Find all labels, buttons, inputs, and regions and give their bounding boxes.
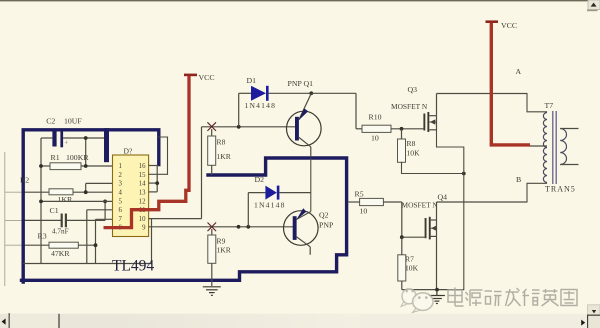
diode D2 triangle xyxy=(265,186,276,200)
wire Q4 gate lead xyxy=(402,236,425,238)
svg-text:9: 9 xyxy=(142,225,146,232)
thick navy stub from top edge to capacitor C2 left plate xyxy=(52,130,56,147)
svg-text:4.7nF: 4.7nF xyxy=(52,228,69,236)
wire D2 node riser (thick rail to Q2 emitter) xyxy=(310,158,312,212)
wire R10 right lead xyxy=(391,128,423,130)
ground symbol at Q4 source xyxy=(429,290,445,304)
diode D1 cathode bar xyxy=(266,86,269,101)
wire left vertical bus at image edge (faint) xyxy=(4,152,6,286)
svg-text:1KR: 1KR xyxy=(58,195,74,204)
svg-text:1KR: 1KR xyxy=(217,246,232,255)
transistor Q1 emitter arrow (PNP) xyxy=(299,108,309,120)
wire R3 left stub faint part xyxy=(5,244,23,246)
wire D1 cathode lead xyxy=(269,92,312,94)
mosfet Q4 channel bar xyxy=(429,217,431,240)
transistor Q1 emitter line xyxy=(299,93,311,120)
wire Q4 drain riser to node B xyxy=(436,202,438,220)
wire R3 right lead xyxy=(78,244,95,246)
window top border xyxy=(0,0,600,1)
transistor Q1 collector line xyxy=(299,137,311,146)
mosfet Q4 drain stub xyxy=(431,219,437,221)
wire node A horizontal xyxy=(437,93,528,95)
wire R8 bottom stub xyxy=(211,165,213,175)
svg-text:Q4: Q4 xyxy=(438,193,448,202)
ground symbol below R9 xyxy=(203,287,221,296)
resistor R5 xyxy=(360,198,384,205)
svg-text:PNP: PNP xyxy=(319,221,334,230)
wire R2 left stub xyxy=(23,191,49,193)
junction dot Q3 source node xyxy=(462,172,466,176)
resistor R9 xyxy=(208,235,216,263)
resistor R7 xyxy=(398,255,406,281)
wire pin14-pin13 riser xyxy=(156,166,158,192)
IC U1 TL494 body xyxy=(113,155,149,237)
wire secondary top lead xyxy=(560,128,578,130)
wire Q1 collector riser to thick rail xyxy=(310,147,312,157)
junction dot pin5 riser xyxy=(103,200,107,204)
wire D2 cathode lead xyxy=(279,192,310,194)
transistor Q1 base bar xyxy=(295,117,299,141)
svg-text:10UF: 10UF xyxy=(64,117,82,126)
transistor Q2 emitter arrow (PNP) xyxy=(296,208,306,220)
junction dot pin 14 xyxy=(155,181,159,185)
wire R5 left lead from thick rail xyxy=(348,201,360,203)
svg-text:D?: D? xyxy=(124,147,133,156)
svg-text:10: 10 xyxy=(139,216,146,223)
wire bottom long ground lead xyxy=(23,263,151,265)
wire D2 anode lead xyxy=(248,192,265,194)
svg-text:47KR: 47KR xyxy=(51,249,70,258)
capacitor C1 right plate xyxy=(65,214,67,228)
svg-text:R8: R8 xyxy=(407,139,416,148)
watermark text 电源研发精英圈 xyxy=(448,288,464,307)
wire node B horizontal xyxy=(437,201,528,203)
wire center tap lead xyxy=(530,145,548,147)
junction dot D2 branch xyxy=(246,225,250,229)
svg-text:12: 12 xyxy=(139,198,146,205)
wire D1 riser xyxy=(238,93,240,127)
mosfet Q3 drain-source line xyxy=(436,116,438,130)
svg-text:1N4148: 1N4148 xyxy=(254,201,286,210)
svg-text:Q3: Q3 xyxy=(408,85,418,94)
wire C1 left stub faint part xyxy=(5,219,23,221)
mosfet Q3 source stub xyxy=(429,129,436,131)
wire C2 left lead xyxy=(41,137,52,139)
svg-text:R5: R5 xyxy=(355,190,364,199)
junction dot pin4/R2 xyxy=(84,190,88,194)
junction dot C2/riser xyxy=(84,136,88,140)
wire R8 top stub xyxy=(211,129,213,136)
wire R10 riser xyxy=(355,93,357,129)
wire pin 13 stub xyxy=(149,191,158,193)
wire riser C2 node to pin1 node xyxy=(85,138,87,166)
junction dot R3/pin7 riser xyxy=(94,243,98,247)
wire R7 top stub xyxy=(401,237,403,255)
power VCC port left (tick bar) xyxy=(184,74,197,77)
wire Q4 gate riser xyxy=(401,202,403,237)
resistor R1 xyxy=(50,163,81,170)
svg-text:10K: 10K xyxy=(407,149,421,158)
junction dot Q1 emitter node xyxy=(309,91,313,95)
wire R8b top stub xyxy=(401,129,403,139)
svg-text:D2: D2 xyxy=(255,175,265,184)
wire Q2 base row from pin 9 xyxy=(149,226,293,228)
wire Q4 source riser xyxy=(436,236,438,289)
mosfet Q3 drain stub xyxy=(429,115,436,117)
wire D1 anode lead xyxy=(239,92,251,94)
wire R1 left lead xyxy=(41,165,50,167)
svg-text:TL494: TL494 xyxy=(112,258,154,275)
transformer T7 primary winding xyxy=(543,113,547,183)
transformer T7 secondary winding xyxy=(560,129,566,165)
no-ERC mark at R8 top xyxy=(207,122,216,131)
svg-text:10: 10 xyxy=(371,134,379,143)
svg-text:4: 4 xyxy=(119,190,123,197)
watermark logo bubble large xyxy=(413,293,433,313)
svg-text:C1: C1 xyxy=(50,206,59,215)
junction dot R1 right riser xyxy=(84,164,88,168)
svg-text:R7: R7 xyxy=(405,255,414,264)
svg-text:A: A xyxy=(516,67,522,76)
wire R2 right lead to pin 4 xyxy=(73,191,113,193)
thick navy bar from top edge down to R1/pin1 node xyxy=(104,128,109,162)
svg-text:10: 10 xyxy=(360,207,368,216)
svg-text:T7: T7 xyxy=(545,101,554,110)
transistor Q2 circle xyxy=(284,211,319,246)
wire riser pin3 to pin4 node xyxy=(85,183,87,192)
junction dot R1 left xyxy=(39,164,43,168)
red VCC trace to transformer center tap xyxy=(491,23,530,145)
power VCC port right (tick bar) xyxy=(486,20,499,23)
junction dot Q4 gate/R7 xyxy=(400,235,404,239)
svg-text:C2: C2 xyxy=(46,117,55,126)
wire R7 bottom stub xyxy=(401,281,403,290)
wire C1 right lead xyxy=(67,219,105,221)
wire R2 left stub faint part xyxy=(5,191,23,193)
svg-text:Q2: Q2 xyxy=(319,211,329,220)
wire Q3 source jog down xyxy=(437,130,464,290)
mosfet Q4 source stub xyxy=(431,235,437,237)
junction dot base row extra xyxy=(237,225,241,229)
junction dot Q3 gate node xyxy=(400,127,404,131)
horizontal scrollbar band bottom left xyxy=(0,314,600,328)
transistor Q2 base bar xyxy=(293,216,297,240)
mosfet Q4 gate bar xyxy=(425,218,427,238)
wire Q3 drain riser to node A xyxy=(436,94,438,116)
junction dot source rail xyxy=(435,288,439,292)
transistor Q2 collector line xyxy=(297,237,311,247)
wire C1 left stub xyxy=(23,219,61,221)
no-ERC mark at R9 top xyxy=(208,223,217,232)
resistor R2 xyxy=(49,189,73,195)
wire pin 7 riser xyxy=(95,219,97,263)
svg-text:R10: R10 xyxy=(369,113,382,122)
svg-text:R1: R1 xyxy=(51,153,60,162)
wire R3 left stub xyxy=(23,244,49,246)
watermark logo bubble small xyxy=(401,289,416,307)
transistor Q1 circle xyxy=(287,111,322,146)
svg-text:+: + xyxy=(64,139,68,147)
wire R9 bottom lead xyxy=(211,263,213,286)
wire Q1 emitter to R10 lead xyxy=(311,92,356,94)
svg-text:1N4148: 1N4148 xyxy=(245,101,277,110)
svg-text:13: 13 xyxy=(139,190,146,197)
wire pin 15 stub xyxy=(149,173,168,175)
svg-text:R2: R2 xyxy=(20,176,29,185)
svg-text:R8: R8 xyxy=(217,138,226,147)
svg-text:TRAN5: TRAN5 xyxy=(545,185,576,194)
capacitor C2 right plate xyxy=(60,132,63,148)
svg-text:VCC: VCC xyxy=(501,21,517,30)
junction dot D1 branch xyxy=(237,125,241,129)
svg-text:10K: 10K xyxy=(405,264,419,273)
wire R1 right lead to pin 1 xyxy=(81,165,113,167)
thick navy bus: left edge / top edge / right drop of TL494 block xyxy=(23,130,159,282)
svg-text:7: 7 xyxy=(119,216,123,223)
wire pin 15 riser loop xyxy=(159,137,168,174)
diode D1 triangle xyxy=(251,86,266,101)
wire pin 10 riser up to Q1 base row xyxy=(201,127,203,219)
wire R8b bottom lead xyxy=(402,162,464,173)
svg-text:5: 5 xyxy=(119,198,123,205)
wire R10 left lead xyxy=(356,128,362,130)
svg-text:VCC: VCC xyxy=(199,73,215,82)
capacitor C1 left plate xyxy=(61,214,63,228)
svg-text:2: 2 xyxy=(119,172,123,179)
svg-text:16: 16 xyxy=(139,163,146,170)
svg-text:6: 6 xyxy=(119,207,123,214)
scrollbar left-arrow button xyxy=(8,313,10,328)
wire D2 riser xyxy=(247,193,249,227)
mosfet Q3 gate bar xyxy=(423,114,425,131)
svg-text:R3: R3 xyxy=(38,232,47,241)
wire pin 14 stub xyxy=(149,182,158,184)
wire pin 10 lower riser xyxy=(151,219,153,264)
scrollbar thumb edge xyxy=(10,315,59,328)
wire R5 right lead xyxy=(383,201,401,203)
scrollbar corner box bottom right xyxy=(587,315,600,328)
wire node B up jog xyxy=(527,183,547,202)
wire pin 5 long lead xyxy=(41,200,113,202)
thick navy bus: bottom edge with step up to Q2 collector rail xyxy=(22,158,347,280)
svg-text:1KR: 1KR xyxy=(217,152,232,161)
wire pin 7 stub xyxy=(96,218,113,220)
resistor R3 xyxy=(49,242,78,248)
transformer T7 core lines xyxy=(552,111,554,184)
wire pin 6 riser xyxy=(86,210,88,264)
resistor R10 xyxy=(362,125,391,132)
wire pin 16 stub xyxy=(149,165,159,167)
red VCC trace to TL494 pins 12/11/8 xyxy=(104,76,190,228)
svg-text:D1: D1 xyxy=(247,76,257,85)
svg-text:15: 15 xyxy=(139,172,146,179)
diode D2 cathode bar xyxy=(277,186,280,200)
svg-text:1: 1 xyxy=(119,163,122,170)
wire source ground rail xyxy=(402,289,464,291)
svg-text:R9: R9 xyxy=(217,237,226,246)
wire secondary bottom lead xyxy=(560,164,578,166)
wire Q2 collector riser to thick rail xyxy=(309,247,311,255)
svg-text:B: B xyxy=(516,175,521,184)
svg-text:3: 3 xyxy=(119,181,123,188)
svg-text:PNP Q1: PNP Q1 xyxy=(288,79,314,88)
mosfet Q3 channel bar xyxy=(427,112,429,132)
wire C2 right lead xyxy=(63,137,104,139)
wire node A down jog xyxy=(527,94,547,112)
svg-text:MOSFET N: MOSFET N xyxy=(391,102,428,111)
wire pin 10 stub to riser xyxy=(149,218,202,220)
mosfet Q3 body arrow xyxy=(430,119,436,124)
wire Q1 base row xyxy=(202,126,297,128)
mosfet Q4 body arrow xyxy=(431,226,436,231)
junction dot pin5/bus41 xyxy=(39,200,43,204)
svg-text:14: 14 xyxy=(139,181,146,188)
wire pin 3 stub xyxy=(86,182,113,184)
mosfet Q4 drain-source line xyxy=(436,220,438,236)
resistor R8 10K xyxy=(398,139,406,162)
scrollbar down-arrow button bottom right xyxy=(588,305,600,315)
transistor Q2 emitter line xyxy=(297,212,311,220)
wire vertical bus x41 xyxy=(40,138,42,264)
wire R9 top stub xyxy=(211,229,213,235)
svg-text:MOSFET N: MOSFET N xyxy=(402,201,439,210)
scrollbar up-arrow button top right xyxy=(588,0,600,10)
resistor R8 xyxy=(208,136,216,165)
wire riser C1 to pin5 row xyxy=(104,201,106,220)
wire pin 6 stub xyxy=(87,209,113,211)
